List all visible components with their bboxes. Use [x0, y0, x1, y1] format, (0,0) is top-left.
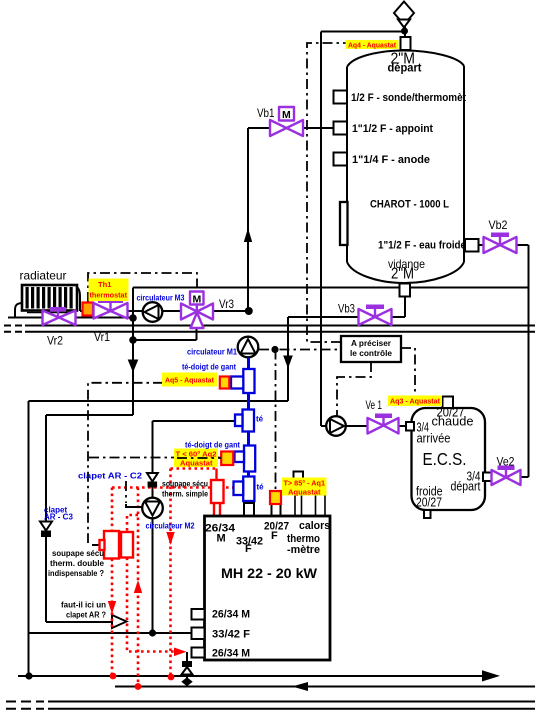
svg-text:départ: départ	[388, 63, 422, 75]
svg-text:circulateur M3: circulateur M3	[137, 294, 185, 303]
svg-text:Th1: Th1	[98, 280, 112, 289]
svg-text:té: té	[256, 415, 264, 424]
svg-text:Vr2: Vr2	[47, 334, 63, 348]
svg-text:Vb3: Vb3	[338, 302, 355, 316]
svg-text:Vb1: Vb1	[257, 106, 275, 120]
svg-text:A préciser: A préciser	[351, 339, 391, 348]
svg-text:F: F	[245, 543, 252, 555]
svg-text:Aq5 - Aquastat: Aq5 - Aquastat	[165, 375, 214, 384]
svg-text:E.C.S.: E.C.S.	[423, 449, 467, 469]
svg-text:therm. simple: therm. simple	[162, 490, 208, 499]
svg-text:Vb2: Vb2	[489, 218, 508, 232]
svg-text:vidange: vidange	[388, 257, 425, 271]
svg-text:té-doigt de gant: té-doigt de gant	[185, 441, 240, 450]
svg-text:-mètre: -mètre	[287, 544, 320, 556]
svg-text:té: té	[257, 483, 265, 492]
svg-text:soupape sécu: soupape sécu	[162, 480, 208, 489]
svg-text:therm. double: therm. double	[50, 559, 105, 568]
svg-text:arrivée: arrivée	[417, 431, 451, 446]
svg-text:Aq3 - Aquastat: Aq3 - Aquastat	[390, 397, 440, 406]
svg-text:clapet AR ?: clapet AR ?	[66, 611, 106, 620]
svg-text:départ: départ	[451, 479, 481, 494]
svg-text:indispensable ?: indispensable ?	[48, 569, 104, 578]
svg-text:33/42 F: 33/42 F	[212, 629, 250, 641]
svg-text:26/34 M: 26/34 M	[212, 648, 250, 660]
svg-text:T> 85° - Aq1: T> 85° - Aq1	[284, 479, 326, 488]
svg-text:1"1/4 F - anode: 1"1/4 F - anode	[352, 154, 430, 166]
svg-text:Vr1: Vr1	[94, 330, 110, 344]
svg-text:clapet AR - C2: clapet AR - C2	[78, 472, 143, 481]
svg-text:Vr3: Vr3	[219, 297, 234, 311]
svg-text:circulateur M1: circulateur M1	[187, 348, 238, 357]
svg-text:M: M	[193, 294, 202, 306]
svg-text:thermostat: thermostat	[90, 291, 128, 300]
svg-text:le contrôle: le contrôle	[350, 349, 393, 358]
svg-text:faut-il ici un: faut-il ici un	[61, 601, 106, 610]
svg-text:26/34 M: 26/34 M	[212, 609, 250, 621]
svg-text:1"1/2 F - appoint: 1"1/2 F - appoint	[352, 123, 433, 135]
svg-text:radiateur: radiateur	[20, 269, 67, 283]
svg-text:circulateur M2: circulateur M2	[146, 522, 195, 531]
svg-text:M: M	[217, 533, 226, 545]
svg-text:soupape sécu: soupape sécu	[52, 549, 104, 558]
svg-text:1/2 F - sonde/thermomèt: 1/2 F - sonde/thermomèt	[351, 92, 466, 104]
svg-text:Aquastat: Aquastat	[180, 459, 213, 468]
svg-text:chaude: chaude	[432, 414, 474, 429]
svg-text:Aquastat: Aquastat	[288, 488, 321, 497]
svg-text:MH 22 - 20 kW: MH 22 - 20 kW	[221, 565, 318, 581]
svg-text:Ve 1: Ve 1	[366, 398, 383, 412]
svg-text:té-doigt de gant: té-doigt de gant	[182, 363, 236, 372]
svg-text:Aq4 - Aquastat: Aq4 - Aquastat	[348, 40, 396, 49]
svg-text:20/27: 20/27	[416, 495, 442, 510]
svg-text:CHAROT - 1000 L: CHAROT - 1000 L	[370, 199, 449, 211]
svg-text:Ve2: Ve2	[497, 455, 515, 469]
svg-text:M: M	[282, 109, 291, 121]
svg-text:F: F	[271, 530, 278, 542]
svg-text:1"1/2 F - eau froide: 1"1/2 F - eau froide	[378, 240, 466, 252]
svg-text:AR - C3: AR - C3	[44, 513, 73, 522]
